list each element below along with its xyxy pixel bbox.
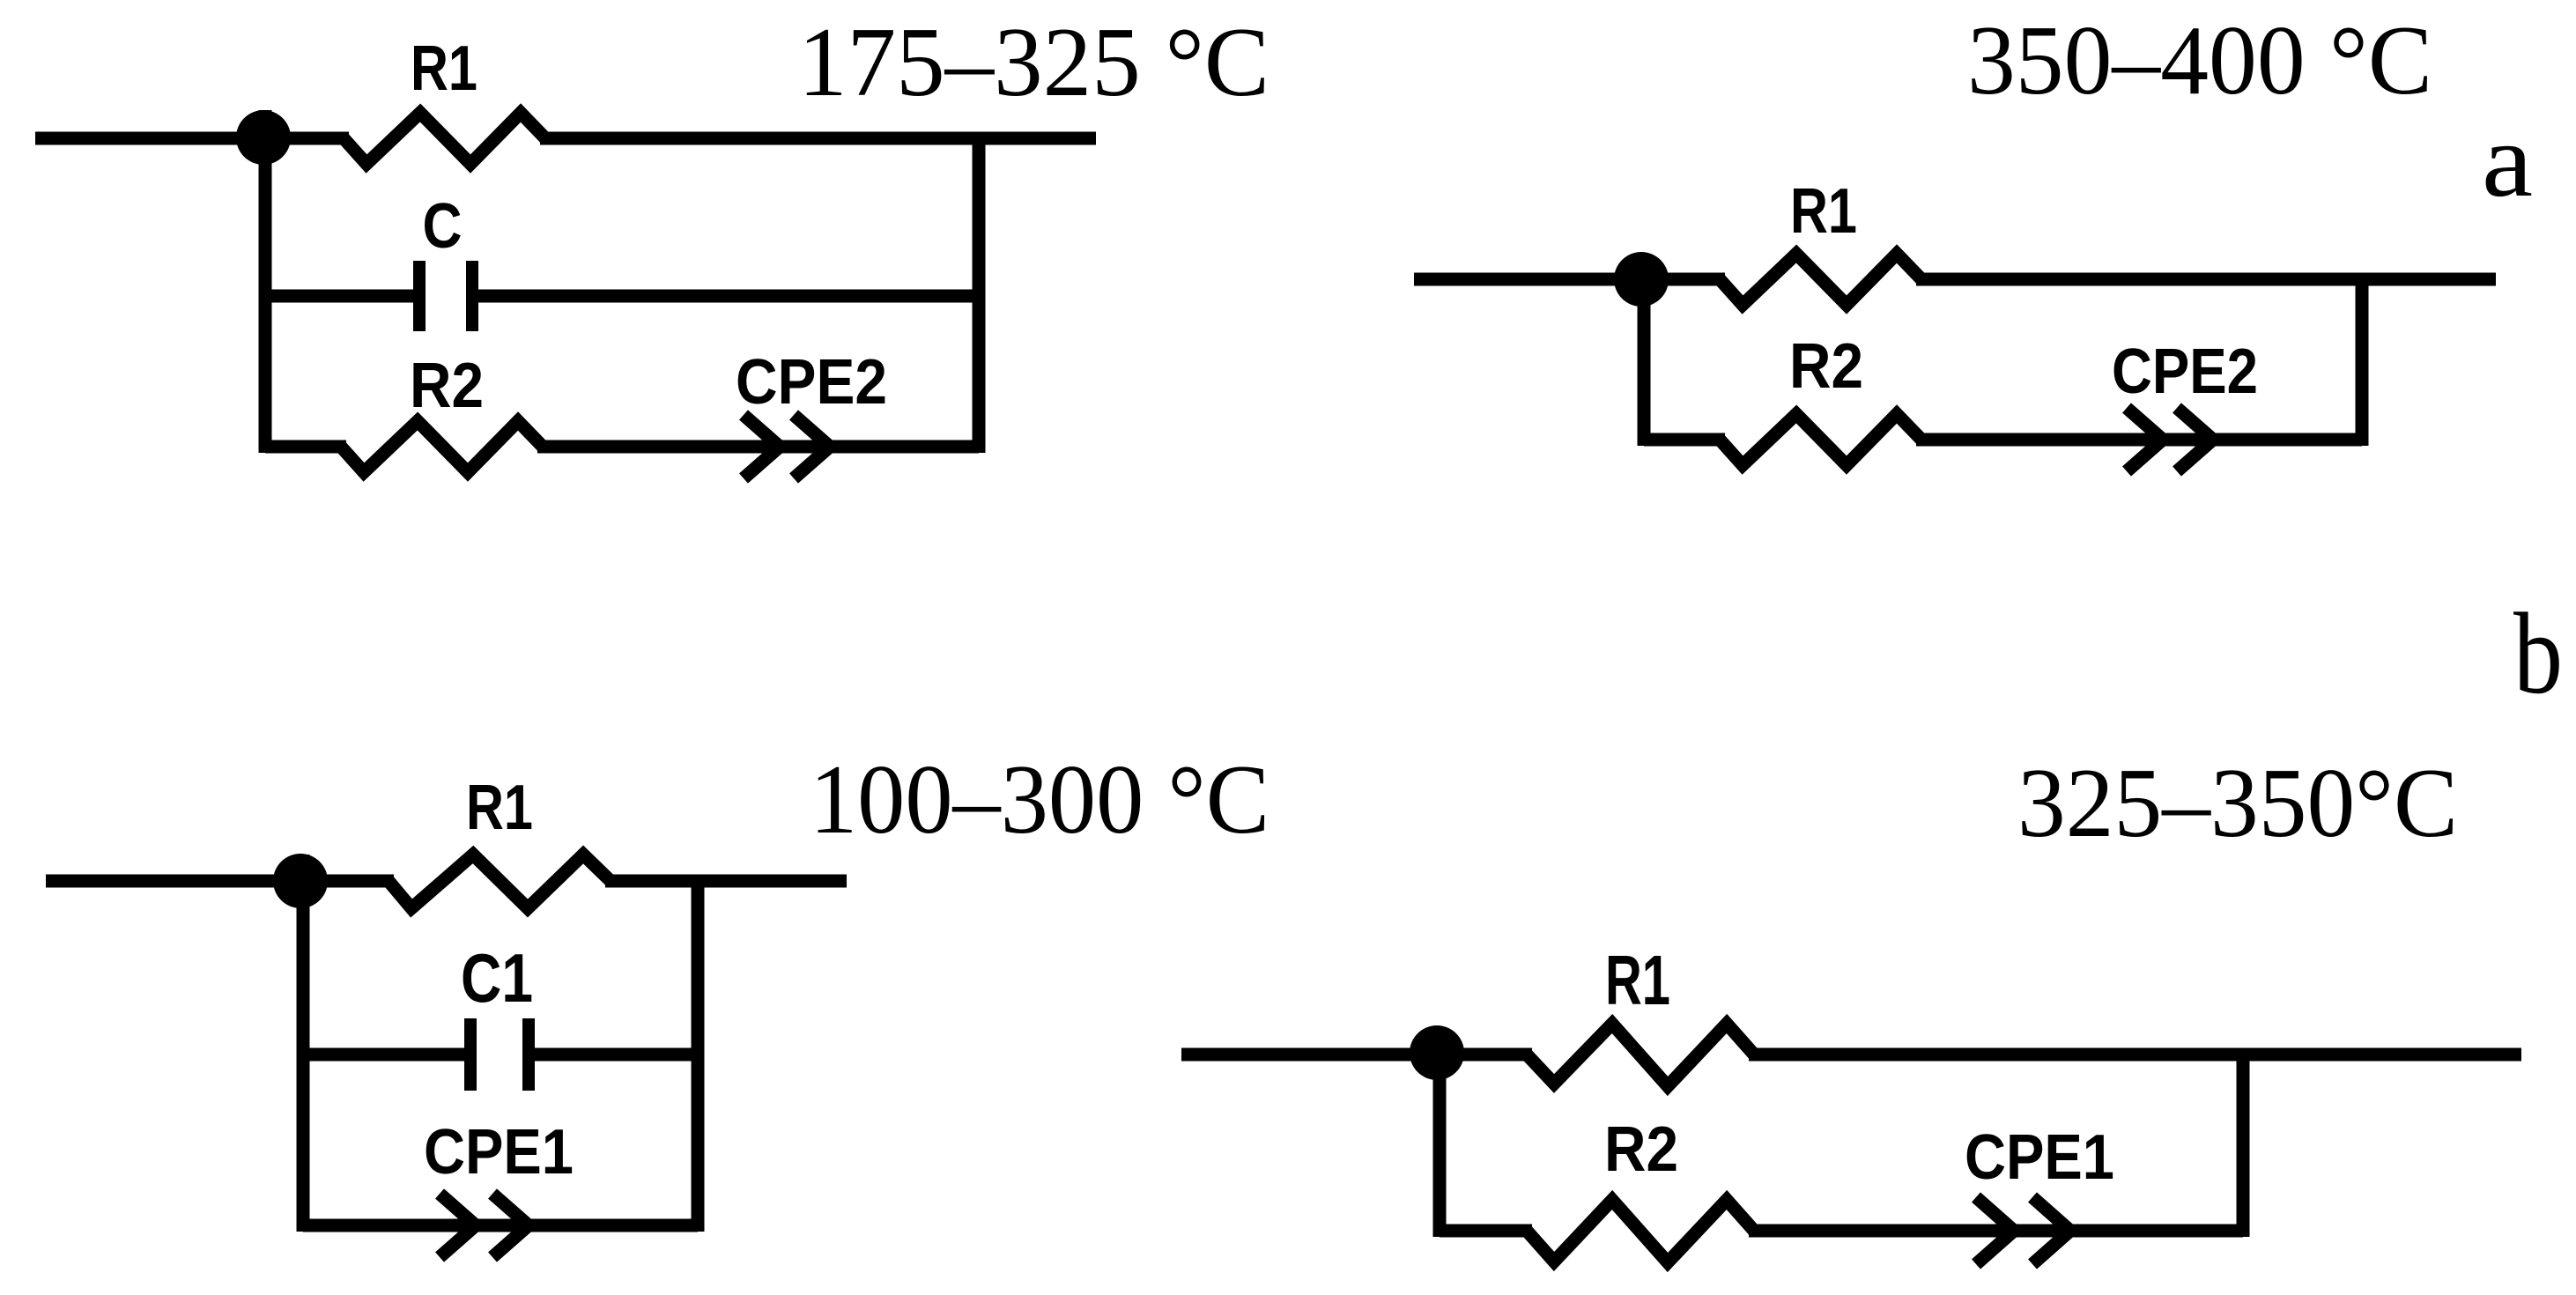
svg-text:C1: C1 [461,939,533,1017]
wire: bottom branch circuit 3 [303,1219,698,1232]
svg-text:R1: R1 [466,773,533,843]
wire: right vertical branch circuit 1 [973,132,986,453]
resistor R2 (circuit 1) [341,421,543,472]
resistor R1 (circuit 2) [1720,254,1921,305]
wire: C1 branch left segment circuit 3 [303,1048,464,1062]
svg-text:CPE1: CPE1 [1965,1122,2114,1193]
node A1 junction dot [236,110,291,165]
node B2 junction dot [1410,1025,1464,1080]
resistor R1 (circuit 1) [344,113,545,164]
svg-text:R1: R1 [1605,941,1670,1019]
wire: bottom branch right segment circuit 4 [1749,1225,2243,1238]
CPE1 element chevrons (circuit 4) [1976,1197,2070,1264]
wire: C branch left segment circuit 1 [265,290,413,303]
wire: main top line circuit 1 [35,132,349,145]
resistor R1 (circuit 4) [1527,1024,1754,1086]
svg-text:R2: R2 [1604,1114,1678,1185]
wire: C branch right segment circuit 1 [478,290,979,303]
capacitor C1 plates (circuit 3) [464,1018,535,1091]
svg-text:CPE1: CPE1 [424,1117,574,1188]
resistor R2 (circuit 2) [1720,414,1921,465]
svg-text:R1: R1 [1790,176,1857,247]
wire: main line circuit 2 [1414,273,1725,286]
svg-text:CPE2: CPE2 [2112,337,2258,407]
svg-text:350–400 °C: 350–400 °C [1967,6,2432,115]
svg-text:325–350°C: 325–350°C [2017,749,2458,858]
wire: C1 branch right segment circuit 3 [535,1048,698,1062]
wire: right vertical branch circuit 4 [2237,1054,2250,1237]
wire: main line circuit 3 [46,875,394,888]
svg-text:R1: R1 [411,33,477,104]
wire: bottom branch left segment circuit 4 [1440,1225,1532,1238]
capacitor C plates (circuit 1) [413,261,478,331]
CPE1 element chevrons (circuit 3) [440,1194,529,1257]
wire: left vertical branch circuit 4 [1433,1053,1447,1237]
resistor R1 (circuit 3) [389,855,611,908]
svg-text:CPE2: CPE2 [736,347,887,418]
wire: right vertical branch circuit 3 [692,875,705,1232]
wire: bottom branch right segment circuit 1 [537,440,979,454]
wire: left vertical branch circuit 1 [259,110,272,453]
wire: main line circuit 4 [1181,1048,1532,1062]
svg-text:175–325 °C: 175–325 °C [798,8,1269,117]
svg-text:C: C [423,191,463,262]
node A2 junction dot [1614,252,1669,307]
wire: bottom branch right segment circuit 2 [1916,433,2362,447]
wire: right vertical branch circuit 2 [2356,273,2369,446]
svg-text:a: a [2482,101,2533,218]
svg-text:R2: R2 [1789,331,1863,402]
svg-text:100–300 °C: 100–300 °C [810,745,1269,855]
svg-text:R2: R2 [410,351,484,421]
node B1 junction dot [273,854,328,908]
wire: bottom branch left segment circuit 1 [265,440,346,454]
svg-text:b: b [2513,588,2563,718]
wire: bottom branch left segment circuit 2 [1644,433,1725,447]
resistor R2 (circuit 4) [1527,1200,1754,1262]
CPE2 element chevrons (circuit 2) [2127,408,2213,471]
CPE2 element chevrons (circuit 1) [744,415,830,478]
wire: left vertical branch circuit 2 [1638,279,1651,446]
wire: left vertical branch circuit 3 [297,855,310,1232]
